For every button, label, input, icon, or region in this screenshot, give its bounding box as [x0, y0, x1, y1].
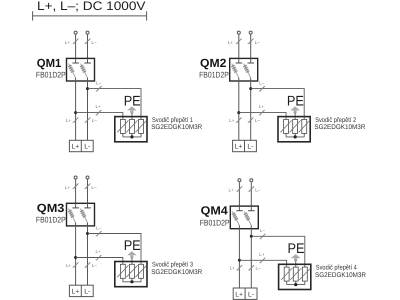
junction on L+ wire to SPD branch (QM2): [237, 111, 240, 114]
varistor element L- of SPD (QM2): [302, 119, 307, 133]
feeder terminal circle L+ (QM2): [237, 31, 240, 34]
varistor diagonal L+ (QM3): [117, 265, 128, 277]
wire L+ below QM3 to terminal block: [75, 226, 77, 285]
svg-text:L–: L–: [256, 266, 262, 271]
svg-text:QM4: QM4: [201, 204, 229, 218]
SPD bottom junction (QM3): [130, 280, 133, 283]
feeder terminal circle L- (QM2): [249, 31, 252, 34]
wire L+ from terminal to QM2: [238, 35, 240, 59]
wire branch L- to surge protector (QM3): [88, 234, 142, 265]
svg-text:L–: L–: [96, 80, 102, 85]
cable marker on L+ branch (QM4): [260, 258, 265, 263]
svg-text:L+: L+: [259, 252, 265, 257]
terminal divider (QM4): [244, 288, 246, 299]
junction on L+ wire to SPD branch (QM3): [74, 256, 77, 259]
wire branch L- to surge protector (QM2): [251, 89, 305, 120]
PE arrow stem (QM3): [130, 255, 133, 258]
varistor bottom lead PE (QM3): [131, 278, 133, 282]
bus line for DC 1000V feeder: [33, 15, 147, 17]
varistor bottom lead L- (QM3): [140, 278, 142, 282]
breaker QM1 pole 2 (L-): [87, 58, 89, 63]
wire L+ from terminal to QM3: [75, 179, 77, 203]
junction on L- wire to SPD branch (QM2): [249, 87, 252, 90]
svg-text:Svodič přepětí 2: Svodič přepětí 2: [315, 117, 356, 124]
wire L- below QM3 to terminal block: [87, 226, 89, 285]
circuit breaker QM4 outline: [230, 206, 258, 229]
PE arrow stem (QM2): [294, 110, 297, 113]
svg-text:L–: L–: [260, 228, 266, 233]
wire L- from terminal to QM2: [250, 35, 252, 59]
svg-text:PE: PE: [287, 92, 304, 108]
cable marker on L+ feeder (QM4): [237, 186, 242, 191]
PE earth arrow symbol (QM3): [127, 251, 137, 255]
svg-text:L–: L–: [91, 185, 97, 190]
cable marker on L- feeder (QM1): [85, 39, 90, 44]
cable marker on L+ branch (QM1): [96, 110, 101, 115]
svg-text:L-: L-: [247, 144, 253, 151]
varistor element PE of SPD (QM1): [130, 119, 135, 133]
wire PE to surge protector (QM2): [294, 113, 296, 120]
varistor element PE of SPD (QM2): [293, 119, 298, 133]
bus line right tick: [146, 11, 148, 20]
junction on L- wire to SPD branch (QM3): [86, 232, 89, 235]
cable marker on L- output wire (QM4): [249, 265, 254, 270]
varistor diagonal PE (QM1): [126, 120, 137, 132]
feeder terminal circle L+ (QM4): [238, 179, 241, 182]
cable marker on L- branch (QM4): [260, 234, 265, 239]
varistor bottom lead PE (QM2): [294, 133, 296, 137]
wire L+ from terminal to QM4: [238, 182, 240, 206]
feeder terminal circle L+ (QM3): [74, 176, 77, 179]
svg-text:QM1: QM1: [37, 56, 62, 70]
SPD common bottom bar (QM2): [286, 136, 304, 138]
wire branch L+ to surge protector (QM3): [76, 258, 123, 265]
junction on L+ wire to SPD branch (QM1): [74, 111, 77, 114]
output terminal block L+/L- (QM1): [69, 140, 93, 151]
SPD bottom junction (QM2): [294, 135, 297, 138]
svg-text:SG2EDGK10M3R: SG2EDGK10M3R: [151, 269, 202, 276]
junction on L- wire to SPD branch (QM4): [250, 235, 253, 238]
wire L- from terminal to QM3: [87, 179, 89, 203]
wire L- from terminal to QM4: [250, 182, 252, 206]
cable marker on L+ feeder (QM3): [73, 184, 78, 189]
varistor bottom lead PE (QM1): [131, 133, 133, 137]
varistor diagonal L+ (QM2): [280, 120, 291, 132]
svg-text:FB01D2P: FB01D2P: [199, 71, 229, 80]
svg-text:QM3: QM3: [37, 201, 65, 215]
wire L- below QM4 to terminal block: [250, 229, 252, 288]
cable marker on L+ branch (QM2): [260, 110, 265, 115]
svg-text:L+: L+: [230, 266, 236, 271]
svg-text:L+: L+: [96, 249, 102, 254]
varistor element L+ of SPD (QM2): [284, 119, 289, 133]
SPD bottom junction (QM1): [130, 135, 133, 138]
svg-text:L–: L–: [96, 225, 102, 230]
varistor diagonal PE (QM4): [290, 268, 301, 280]
varistor bottom lead L+ (QM4): [286, 281, 288, 285]
svg-text:FB01D2P: FB01D2P: [200, 218, 230, 227]
wire L+ below QM4 to terminal block: [238, 229, 240, 288]
circuit breaker QM3 outline: [67, 203, 95, 226]
breaker QM2 pole 1 (L+): [238, 58, 240, 63]
svg-text:L–: L–: [255, 40, 261, 45]
breaker QM2 pole 2 (L-): [250, 58, 252, 63]
wire L+ from terminal to QM1: [75, 35, 77, 59]
cable marker on L+ output wire (QM2): [237, 117, 242, 122]
svg-text:L-: L-: [248, 291, 254, 298]
wire branch L- to surge protector (QM1): [88, 89, 142, 120]
breaker QM4 pole 1 (L+): [238, 206, 240, 211]
svg-text:L-: L-: [84, 289, 90, 296]
wire L- below QM2 to terminal block: [250, 81, 252, 140]
svg-text:QM2: QM2: [200, 56, 227, 70]
svg-text:PE: PE: [288, 240, 305, 256]
svg-text:L+: L+: [229, 118, 235, 123]
svg-text:L–: L–: [91, 40, 97, 45]
svg-text:L+: L+: [65, 40, 71, 45]
surge protector FA4 outline: [279, 264, 311, 289]
cable marker on L+ branch (QM3): [96, 255, 101, 260]
varistor bottom lead L+ (QM2): [285, 133, 287, 137]
terminal divider (QM3): [80, 285, 82, 296]
svg-text:Svodič přepětí 1: Svodič přepětí 1: [152, 117, 193, 124]
svg-text:L+: L+: [65, 185, 71, 190]
varistor element L- of SPD (QM1): [139, 119, 144, 133]
svg-text:L+: L+: [228, 40, 234, 45]
wire L+ below QM2 to terminal block: [238, 81, 240, 140]
SPD common bottom bar (QM1): [123, 136, 141, 138]
breaker QM3 pole 1 (L+): [75, 203, 77, 208]
feeder terminal circle L+ (QM1): [74, 31, 77, 34]
varistor diagonal L- (QM2): [299, 120, 310, 132]
svg-text:L+: L+: [259, 104, 265, 109]
cable marker on L- output wire (QM2): [249, 117, 254, 122]
varistor diagonal L+ (QM4): [281, 268, 292, 280]
wire branch L+ to surge protector (QM2): [239, 113, 286, 120]
breaker QM1 pole 1 (L+): [75, 58, 77, 63]
SPD common bottom bar (QM4): [287, 284, 305, 286]
svg-text:FB01D2P: FB01D2P: [36, 216, 66, 225]
output terminal block L+/L- (QM2): [233, 140, 257, 151]
cable marker on L- feeder (QM3): [85, 184, 90, 189]
output terminal block L+/L- (QM4): [233, 288, 257, 299]
cable marker on L- branch (QM1): [97, 86, 102, 91]
wire PE to surge protector (QM3): [131, 258, 133, 265]
varistor element L+ of SPD (QM1): [120, 119, 125, 133]
junction on L- wire to SPD branch (QM1): [86, 87, 89, 90]
terminal divider (QM1): [80, 140, 82, 151]
svg-text:L+: L+: [228, 188, 234, 193]
varistor element PE of SPD (QM4): [293, 267, 298, 281]
varistor element L- of SPD (QM3): [139, 264, 144, 278]
surge protector FA2 outline: [278, 117, 310, 142]
bus line left tick: [32, 11, 34, 20]
cable marker on L+ output wire (QM3): [73, 262, 78, 267]
cable marker on L- feeder (QM2): [249, 39, 254, 44]
PE arrow stem (QM1): [130, 110, 133, 113]
svg-text:SG2EDGK10M3R: SG2EDGK10M3R: [151, 124, 202, 131]
svg-text:L–: L–: [255, 188, 261, 193]
varistor bottom lead PE (QM4): [295, 281, 297, 285]
circuit breaker QM1 outline: [67, 58, 95, 81]
varistor bottom lead L+ (QM1): [122, 133, 124, 137]
feeder terminal circle L- (QM4): [250, 179, 253, 182]
svg-text:L–: L–: [92, 263, 98, 268]
svg-text:L–: L–: [259, 80, 265, 85]
svg-text:L+, L–; DC 1000V: L+, L–; DC 1000V: [37, 0, 146, 13]
svg-text:L+: L+: [235, 144, 243, 151]
varistor element L+ of SPD (QM3): [120, 264, 125, 278]
svg-text:SG2EDGK10M3R: SG2EDGK10M3R: [315, 272, 366, 279]
junction on L+ wire to SPD branch (QM4): [238, 259, 241, 262]
varistor bottom lead L+ (QM3): [122, 278, 124, 282]
varistor bottom lead L- (QM4): [304, 281, 306, 285]
varistor bottom lead L- (QM1): [140, 133, 142, 137]
wire L+ below QM1 to terminal block: [75, 81, 77, 140]
cable marker on L+ feeder (QM2): [237, 39, 242, 44]
wire PE to surge protector (QM4): [295, 261, 297, 268]
wire branch L- to surge protector (QM4): [251, 236, 304, 267]
svg-text:PE: PE: [124, 237, 141, 253]
svg-text:SG2EDGK10M3R: SG2EDGK10M3R: [314, 124, 365, 131]
cable marker on L- feeder (QM4): [249, 186, 254, 191]
feeder terminal circle L- (QM3): [86, 176, 89, 179]
svg-text:Svodič přepětí 4: Svodič přepětí 4: [316, 265, 357, 272]
varistor element L+ of SPD (QM4): [284, 267, 289, 281]
output terminal block L+/L- (QM3): [69, 285, 93, 296]
varistor element L- of SPD (QM4): [302, 267, 307, 281]
breaker QM4 pole 2 (L-): [250, 206, 252, 211]
PE earth arrow symbol (QM1): [127, 106, 137, 110]
varistor diagonal L- (QM3): [135, 265, 146, 277]
surge protector FA3 outline: [115, 262, 147, 287]
SPD common bottom bar (QM3): [123, 281, 141, 283]
cable marker on L+ output wire (QM4): [237, 265, 242, 270]
cable marker on L- branch (QM3): [97, 231, 102, 236]
varistor diagonal L+ (QM1): [117, 120, 128, 132]
varistor diagonal PE (QM2): [290, 120, 301, 132]
wire branch L+ to surge protector (QM4): [239, 260, 286, 267]
surge protector FA1 outline: [115, 117, 147, 142]
svg-text:L+: L+: [71, 289, 79, 296]
wire L- from terminal to QM1: [87, 35, 89, 59]
varistor element PE of SPD (QM3): [130, 264, 135, 278]
wire branch L+ to surge protector (QM1): [76, 113, 123, 120]
wire PE to surge protector (QM1): [131, 113, 133, 120]
terminal divider (QM2): [244, 140, 246, 151]
wire L- below QM1 to terminal block: [87, 81, 89, 140]
svg-text:L+: L+: [66, 118, 72, 123]
varistor diagonal L- (QM4): [299, 268, 310, 280]
svg-text:FB01D2P: FB01D2P: [36, 71, 66, 80]
varistor diagonal L- (QM1): [135, 120, 146, 132]
PE arrow stem (QM4): [294, 258, 297, 261]
svg-text:PE: PE: [124, 92, 141, 108]
varistor diagonal PE (QM3): [126, 265, 137, 277]
svg-text:L+: L+: [235, 291, 243, 298]
cable marker on L+ feeder (QM1): [73, 39, 78, 44]
svg-text:L+: L+: [96, 104, 102, 109]
feeder terminal circle L- (QM1): [86, 31, 89, 34]
breaker QM3 pole 2 (L-): [87, 203, 89, 208]
svg-text:Svodič přepětí 3: Svodič přepětí 3: [152, 262, 193, 269]
cable marker on L- output wire (QM1): [85, 117, 90, 122]
svg-text:L-: L-: [84, 144, 90, 151]
svg-text:L+: L+: [71, 144, 79, 151]
cable marker on L+ output wire (QM1): [73, 117, 78, 122]
cable marker on L- branch (QM2): [260, 86, 265, 91]
svg-text:L–: L–: [255, 118, 261, 123]
svg-text:L–: L–: [92, 118, 98, 123]
svg-text:L+: L+: [66, 263, 72, 268]
PE earth arrow symbol (QM2): [290, 106, 300, 110]
SPD bottom junction (QM4): [294, 283, 297, 286]
PE earth arrow symbol (QM4): [291, 254, 301, 258]
circuit breaker QM2 outline: [230, 58, 258, 81]
cable marker on L- output wire (QM3): [85, 262, 90, 267]
varistor bottom lead L- (QM2): [303, 133, 305, 137]
